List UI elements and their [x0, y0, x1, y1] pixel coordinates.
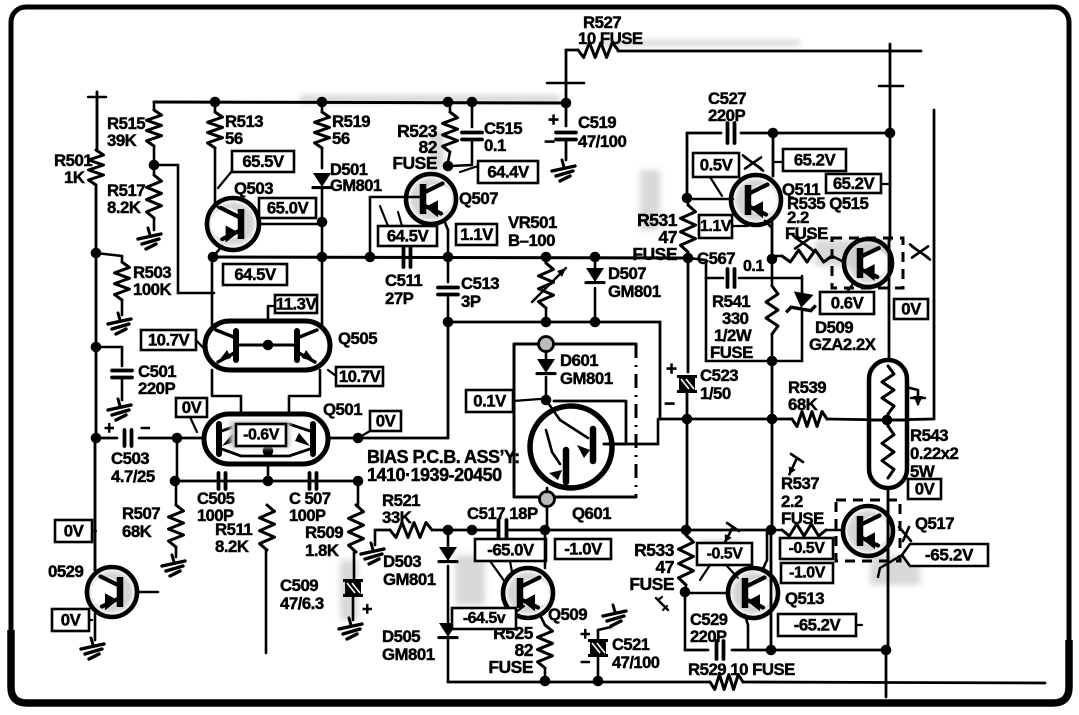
voltage box 0V upper Q529 — [55, 520, 96, 542]
voltage box 11.3V — [268, 295, 318, 314]
wire Q507 base — [370, 197, 419, 257]
svg-text:0529: 0529 — [48, 562, 83, 581]
junction bus/x566 — [561, 98, 572, 109]
svg-text:4.7/25: 4.7/25 — [111, 467, 155, 486]
svg-text:68K: 68K — [788, 395, 818, 414]
voltage box -0.5V right — [780, 538, 833, 559]
svg-text:D601: D601 — [560, 351, 598, 370]
label C507 — [289, 490, 331, 525]
capacitor C567 — [688, 258, 772, 287]
ground under C519 — [552, 160, 575, 181]
wire Q505 base riser — [267, 306, 270, 328]
transistor Q517 — [843, 506, 893, 556]
resistor R539 — [792, 412, 827, 427]
label R539 — [788, 378, 826, 414]
bias assembly box — [514, 344, 636, 497]
ground under R521 — [361, 543, 384, 564]
svg-text:64.5V: 64.5V — [387, 227, 430, 246]
wire R507 riser — [176, 438, 177, 505]
voltage box 0.6V — [820, 285, 874, 314]
svg-text:-1.0V: -1.0V — [789, 565, 826, 582]
svg-text:0.1V: 0.1V — [473, 392, 507, 411]
wire y419 to x934 — [887, 419, 934, 420]
svg-text:C521: C521 — [612, 636, 650, 654]
svg-text:47/6.3: 47/6.3 — [280, 594, 324, 613]
svg-text:GZA2.2X: GZA2.2X — [809, 335, 877, 354]
label D507 — [608, 264, 661, 301]
label Q509 — [548, 605, 587, 624]
junction y530/x448 — [443, 525, 454, 536]
transistor Q529 — [87, 567, 137, 617]
arrow-x mark above Q513 — [725, 523, 739, 542]
junction R523/C515/Q507 collector — [443, 161, 454, 172]
svg-text:10 FUSE: 10 FUSE — [578, 29, 643, 48]
wire y=438 right segment — [328, 437, 448, 440]
label Q507 — [459, 189, 498, 208]
voltage box 65.2V second — [826, 174, 890, 193]
voltage box 1.1V at R531 — [699, 215, 748, 238]
svg-text:56: 56 — [332, 129, 350, 148]
label Q529 — [48, 562, 83, 581]
svg-text:R543: R543 — [910, 426, 948, 445]
svg-text:GM801: GM801 — [382, 645, 435, 664]
wire R507 ground link — [175, 547, 178, 557]
svg-text:C511: C511 — [385, 271, 422, 290]
svg-text:65.5V: 65.5V — [242, 152, 285, 171]
label C513 — [461, 274, 499, 311]
voltage box -64.5v — [452, 606, 524, 629]
label D505 — [382, 627, 435, 664]
label R517 — [107, 181, 145, 217]
resistor R543 stadium — [869, 360, 907, 488]
svg-text:BIAS P.C.B. ASS’Y:: BIAS P.C.B. ASS’Y: — [367, 447, 520, 467]
transistor Q517 dashed box — [836, 500, 900, 561]
junction Q507 emitter/bus — [443, 252, 454, 263]
wire x687 mid — [687, 258, 690, 372]
svg-text:Q507: Q507 — [459, 189, 498, 208]
label R511 — [215, 520, 252, 556]
ground under R503 — [108, 313, 131, 334]
resistor R533 — [679, 530, 694, 592]
junction Q507 base/bus — [365, 252, 376, 263]
transistor Q509 — [503, 568, 553, 618]
junction x687/y419 — [682, 414, 693, 425]
label R541 — [710, 292, 753, 362]
wire C509 ground link — [352, 596, 355, 620]
junction VR501/y322 — [541, 317, 552, 328]
label Q503 — [234, 179, 273, 198]
wire feedback x=178 — [154, 165, 214, 293]
voltage box 0.5V — [693, 153, 739, 196]
wire Q507 emitter to bus — [444, 220, 448, 257]
ground under R517 — [138, 228, 161, 249]
R543 tap redot — [869, 415, 907, 426]
node via bottom — [540, 492, 555, 507]
svg-text:−: − — [544, 132, 555, 153]
svg-text:Q503: Q503 — [234, 179, 273, 198]
svg-text:100K: 100K — [133, 280, 171, 299]
junction y481 left — [170, 476, 181, 487]
svg-text:-0.5V: -0.5V — [789, 540, 826, 557]
resistor R503 — [115, 262, 130, 300]
svg-text:D503: D503 — [383, 552, 421, 571]
junction y133/x773 — [768, 128, 779, 139]
svg-text:64.5V: 64.5V — [234, 265, 277, 284]
voltage box -0.5V left — [697, 543, 752, 580]
junction C521/bottom bus — [593, 676, 604, 687]
voltage box 0V right of Q501 — [358, 411, 401, 438]
Q505 internals — [216, 330, 317, 362]
svg-text:C 507: C 507 — [289, 490, 331, 508]
svg-text:0.6V: 0.6V — [831, 294, 865, 313]
diode D509 zener — [786, 276, 817, 361]
label C517 18P — [467, 504, 538, 523]
voltage box 1.1V at Q507 — [456, 224, 497, 245]
svg-text:39K: 39K — [107, 131, 137, 150]
junction x772/y361 — [767, 356, 778, 367]
transistor Q511 — [731, 175, 781, 225]
wire C521 riser — [598, 627, 611, 682]
junction D501/bus — [317, 252, 328, 263]
svg-text:-0.5V: -0.5V — [707, 546, 744, 563]
arrow mark at R543 — [910, 388, 925, 406]
wire R509 riser — [357, 481, 360, 505]
label Q511 — [782, 180, 820, 199]
junction y530/x545 — [540, 525, 551, 536]
wire R503 tap — [96, 253, 122, 262]
svg-text:FUSE: FUSE — [488, 657, 533, 677]
wire R511 tail — [265, 550, 268, 653]
svg-text:65.0V: 65.0V — [267, 199, 310, 218]
junction left rail R503 tap — [91, 248, 102, 259]
label R535 Q515 — [787, 194, 868, 213]
wire R519 column — [321, 102, 324, 168]
svg-text:Q509: Q509 — [548, 605, 587, 624]
ground under C501 — [108, 399, 131, 420]
ground above C521 — [603, 605, 626, 626]
wire D503 column — [447, 530, 450, 624]
junction Q503 emitter/bus — [208, 252, 219, 263]
wire corner x=660 — [660, 322, 688, 419]
svg-text:+: + — [104, 418, 114, 438]
label R533 — [629, 540, 674, 594]
svg-text:8.2K: 8.2K — [107, 198, 141, 217]
wire y=361 link — [706, 360, 802, 363]
ground under Q529 — [81, 638, 104, 659]
voltage box 64.5V at Q507 — [378, 206, 437, 246]
capacitor C523 electrolytic — [664, 359, 697, 415]
label R525 — [488, 623, 533, 677]
wire right rail through Q515 — [888, 240, 891, 360]
wire C567 left leg — [705, 278, 708, 361]
wire Q511 base — [687, 198, 733, 201]
wire R521 ground stem — [374, 530, 377, 545]
svg-text:GM801: GM801 — [608, 282, 661, 301]
label Q601 — [572, 504, 611, 523]
wire R541 column — [771, 262, 774, 361]
junction bus/VR501 — [541, 252, 552, 263]
svg-text:47/100: 47/100 — [612, 654, 660, 672]
svg-text:−: − — [664, 394, 675, 415]
label R503 — [133, 263, 171, 299]
svg-text:8.2K: 8.2K — [215, 537, 249, 556]
svg-text:D507: D507 — [608, 264, 646, 283]
junction R543 center tap — [882, 415, 893, 426]
capacitor C517 — [499, 520, 507, 540]
wire Q529 collector stub — [137, 591, 158, 594]
wire x772 seg4 — [771, 419, 774, 530]
junction x687/y530 — [681, 525, 692, 536]
resistor R513 — [208, 112, 223, 148]
resistor R541 — [766, 286, 778, 334]
junction x772/y419 — [767, 414, 778, 425]
svg-text:C509: C509 — [280, 576, 318, 595]
svg-text:Q601: Q601 — [572, 504, 611, 523]
junction x687/Q511 base — [682, 193, 693, 204]
wire D601 link — [545, 351, 548, 400]
wire Q513 emitter — [745, 615, 748, 650]
svg-text:0.5V: 0.5V — [700, 156, 734, 175]
junction x772/R535 — [767, 254, 778, 265]
tick mark on x=566 — [547, 82, 584, 85]
capacitor C527 — [728, 123, 735, 143]
svg-text:11.3V: 11.3V — [276, 295, 318, 314]
label R507 — [122, 504, 160, 541]
svg-text:Q517: Q517 — [915, 514, 954, 533]
wire Q503 base to D501 — [259, 223, 322, 226]
wire Q513 collector — [762, 532, 767, 571]
svg-text:1.1V: 1.1V — [700, 218, 732, 235]
wire Q509 collector riser — [544, 530, 547, 568]
svg-text:0V: 0V — [64, 522, 85, 541]
wire right rail x=890 mid — [889, 133, 892, 240]
svg-text:GM801: GM801 — [383, 570, 436, 589]
voltage box -1.0V right — [781, 563, 833, 583]
junction bus/R519 — [317, 97, 328, 108]
svg-text:0V: 0V — [901, 300, 922, 319]
junction R533/Q513 base — [680, 587, 691, 598]
junction x772/y650 — [766, 645, 777, 656]
capacitor C513 — [438, 257, 458, 322]
svg-text:1/50: 1/50 — [700, 384, 731, 403]
arrow-x mark above R537 — [789, 454, 803, 474]
diode D601 — [537, 359, 555, 374]
voltage box 10.7V right — [328, 367, 383, 386]
svg-text:0.1: 0.1 — [484, 136, 506, 155]
voltage box 65.2V first — [775, 149, 846, 171]
svg-text:FUSE: FUSE — [629, 574, 674, 594]
svg-text:Q505: Q505 — [338, 329, 377, 348]
wire Q601 emitter to node — [546, 488, 549, 530]
Q501 internals — [219, 424, 313, 456]
junction bus/R513 — [210, 97, 221, 108]
wire right rail x=889 lower — [887, 488, 890, 650]
svg-text:0.22x2: 0.22x2 — [910, 444, 958, 463]
svg-text:10.7V: 10.7V — [339, 367, 382, 386]
junction y481 right — [353, 476, 364, 487]
voltage box -65.2V at Q513 — [778, 614, 862, 636]
resistor R523 — [443, 102, 458, 162]
svg-text:1.1V: 1.1V — [460, 225, 494, 244]
svg-text:-65.2V: -65.2V — [925, 546, 974, 565]
voltage box 0V left of Q501 — [176, 398, 207, 432]
svg-text:Q501: Q501 — [323, 400, 362, 419]
svg-text:FUSE: FUSE — [781, 509, 824, 528]
wire x687 upper — [686, 133, 689, 198]
transistor Q601 — [530, 400, 658, 488]
R543 upper element — [882, 366, 894, 426]
x mark over R535 — [793, 235, 813, 250]
svg-text:0V: 0V — [61, 611, 82, 630]
svg-text:-65.2V: -65.2V — [794, 616, 842, 635]
dual transistor Q505 stadium — [205, 321, 330, 370]
wire Q509 emitter — [540, 615, 545, 625]
capacitor C501 — [112, 371, 132, 378]
wire C519 to ground — [565, 141, 568, 160]
svg-text:1.8K: 1.8K — [305, 541, 339, 560]
capacitor C505 — [219, 473, 226, 489]
wire mid bus 64.5V rail y=257 — [212, 257, 688, 258]
wire C501 tap — [96, 347, 122, 366]
label C523 — [700, 366, 738, 403]
label R527 value — [578, 13, 643, 48]
label R519 — [332, 112, 370, 148]
label C503 — [111, 449, 155, 486]
junction bus/R523 — [443, 97, 454, 108]
transistor Q515 — [844, 239, 892, 287]
svg-text:68K: 68K — [122, 522, 152, 541]
resistor R519 — [315, 112, 330, 148]
resistor R521 — [390, 523, 432, 538]
resistor R517 — [147, 175, 162, 218]
junction x772/y530 — [766, 525, 777, 536]
junction D601/Q601 base — [541, 395, 552, 406]
wire R513 column — [214, 102, 217, 204]
svg-text:-64.5v: -64.5v — [463, 610, 506, 627]
wire Q505 left collector riser — [211, 257, 214, 325]
voltage box 64.4V — [460, 161, 538, 183]
wire Q501 bottom center — [267, 464, 270, 481]
svg-text:-65.0V: -65.0V — [487, 541, 535, 560]
transistor Q503 — [207, 198, 259, 250]
wire C501 to ground — [121, 379, 124, 400]
wire R503 to ground — [121, 300, 124, 315]
svg-text:-1.0V: -1.0V — [564, 540, 603, 559]
svg-text:1410·1939-20450: 1410·1939-20450 — [367, 465, 502, 485]
junction y133/x890 — [885, 128, 896, 139]
wire y=133 link — [687, 132, 890, 135]
ground under R507 — [162, 555, 185, 576]
wire x934 rail — [933, 110, 936, 419]
wire R517 to ground — [153, 218, 156, 230]
resistor R511 — [260, 505, 275, 550]
label R521 — [382, 491, 420, 527]
wire D509 top link — [772, 277, 802, 280]
svg-text:D505: D505 — [382, 627, 420, 646]
svg-text:+: + — [548, 110, 559, 131]
wire bottom bus y=682 — [448, 682, 1045, 683]
voltage box 0V right — [894, 299, 928, 319]
label R535 value — [785, 208, 828, 243]
ground under C509 — [339, 618, 362, 639]
capacitor C529 — [717, 641, 724, 659]
label C511 — [385, 271, 422, 308]
svg-text:0V: 0V — [915, 480, 936, 499]
junction R525/bottom bus — [540, 676, 551, 687]
voltage box 0V lower Q529 — [52, 609, 92, 631]
svg-text:56: 56 — [225, 129, 243, 148]
label Q513 — [785, 589, 824, 608]
wire Q513 base — [685, 592, 729, 595]
voltage box 0.1V — [466, 390, 540, 412]
wire y=419 — [688, 419, 887, 420]
label VR501 — [508, 213, 557, 250]
wire y=650 — [685, 649, 886, 652]
svg-text:10.7V: 10.7V — [148, 331, 191, 350]
transistor Q515 dashed box — [832, 238, 903, 288]
svg-text:−: − — [140, 418, 150, 438]
x mark at Q517 — [899, 527, 911, 541]
resistor R529 — [710, 675, 743, 690]
voltage box 65.5V — [218, 151, 294, 188]
wire top bus +65.5V rail y=102 — [154, 102, 566, 103]
svg-text:33K: 33K — [382, 508, 412, 527]
wire C519 riser x=566 — [565, 50, 568, 126]
wire y=530 drive line — [375, 529, 770, 532]
capacitor C521 electrolytic — [580, 624, 608, 672]
svg-text:C523: C523 — [700, 366, 738, 385]
voltage box -1.0V near Q601 — [555, 539, 611, 559]
svg-text:B–100: B–100 — [508, 231, 555, 250]
label Q501 — [323, 400, 362, 419]
label R531 — [632, 210, 677, 264]
wire R533 down leg — [684, 592, 687, 650]
label C529 — [690, 611, 728, 646]
svg-text:R537: R537 — [781, 474, 819, 493]
resistor R509 — [349, 505, 364, 552]
wire R501 column x=96 — [88, 92, 106, 438]
wire R515 column top — [153, 102, 156, 110]
svg-text:C503: C503 — [111, 449, 149, 468]
svg-text:220P: 220P — [708, 106, 745, 125]
label C501 — [138, 362, 176, 398]
svg-text:1K: 1K — [64, 168, 85, 187]
svg-text:47/100: 47/100 — [578, 132, 626, 151]
svg-text:64.4V: 64.4V — [487, 163, 530, 182]
wire C505/C507 bus y=481 — [175, 480, 359, 483]
junction x886/y650 — [881, 645, 892, 656]
wire x660 collector piece — [657, 419, 660, 444]
voltage box 10.7V left — [141, 330, 207, 352]
label R537 — [781, 474, 824, 528]
wire Q511 emitter link — [765, 221, 772, 228]
resistor R527 — [578, 43, 618, 58]
svg-text:65.2V: 65.2V — [833, 174, 876, 193]
capacitor C503 — [104, 418, 150, 446]
node via top — [539, 337, 554, 352]
voltage box -65.0V — [475, 539, 546, 582]
wire Q501 out riser x=448 — [447, 322, 450, 438]
svg-text:GM801: GM801 — [330, 177, 382, 195]
junction R515/R517 node — [149, 160, 160, 171]
label R543 — [910, 426, 958, 481]
label D501 — [330, 161, 382, 195]
wire D501 to bus — [321, 188, 324, 257]
svg-text:Q513: Q513 — [785, 589, 824, 608]
capacitor C509 electrolytic — [343, 581, 372, 620]
diode D501 — [313, 173, 331, 188]
junction bus right end — [683, 253, 694, 264]
